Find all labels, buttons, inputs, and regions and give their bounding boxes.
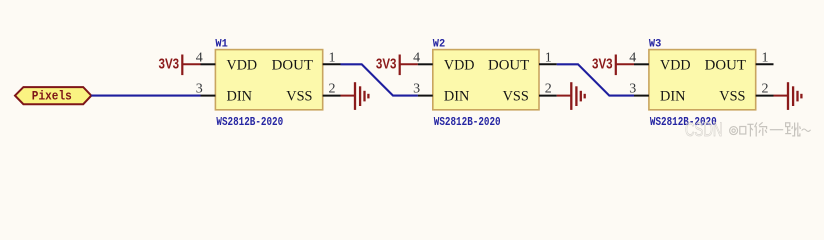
pin 1 DOUT of W2 <box>539 50 557 65</box>
wire DOUT W1 to DIN W2 <box>341 64 418 95</box>
watermark text 你 <box>755 122 767 136</box>
pin 1 DOUT of W3 <box>756 50 774 65</box>
pin 1 DOUT of W1 <box>323 50 341 65</box>
pin 4 VDD of W2 <box>413 50 433 65</box>
IC W3 body WS2812B-2020 <box>649 50 756 110</box>
svg-text:4: 4 <box>629 50 636 65</box>
pin 4 VDD of W3 <box>629 50 649 65</box>
svg-text:2: 2 <box>762 81 769 96</box>
power symbol 3V3 for W2 <box>376 55 418 76</box>
watermark user icon <box>730 127 738 135</box>
watermark text ~ <box>802 129 811 131</box>
svg-text:2: 2 <box>329 81 336 96</box>
svg-text:VSS: VSS <box>503 89 529 105</box>
svg-text:DOUT: DOUT <box>705 58 746 74</box>
pin 2 VSS of W3 <box>756 81 774 96</box>
watermark text 吓 <box>740 124 754 136</box>
pin 3 DIN of W3 <box>629 81 649 96</box>
svg-text:3: 3 <box>629 81 636 96</box>
svg-text:DIN: DIN <box>444 89 470 105</box>
svg-text:3V3: 3V3 <box>376 57 397 73</box>
svg-text:1: 1 <box>329 50 336 65</box>
svg-text:CSDN: CSDN <box>685 119 723 141</box>
power symbol 3V3 for W1 <box>159 55 201 76</box>
svg-text:3V3: 3V3 <box>592 57 613 73</box>
svg-text:2: 2 <box>545 81 552 96</box>
net label Pixels <box>15 87 91 104</box>
svg-text:3: 3 <box>196 81 203 96</box>
pin 4 VDD of W1 <box>196 50 216 65</box>
ground symbol at VSS of W3 <box>774 82 802 110</box>
svg-text:VSS: VSS <box>719 89 745 105</box>
svg-text:DOUT: DOUT <box>272 58 313 74</box>
svg-text:DIN: DIN <box>660 89 686 105</box>
IC W1 body WS2812B-2020 <box>215 50 322 110</box>
svg-text:VDD: VDD <box>444 58 475 74</box>
IC W2 body WS2812B-2020 <box>433 50 539 110</box>
svg-text:Pixels: Pixels <box>32 89 72 104</box>
svg-text:VSS: VSS <box>286 89 312 105</box>
svg-text:VDD: VDD <box>227 58 258 74</box>
ground symbol at VSS of W1 <box>341 82 369 110</box>
wire DOUT W2 to DIN W3 <box>557 64 634 95</box>
svg-text:1: 1 <box>545 50 552 65</box>
svg-text:1: 1 <box>762 50 769 65</box>
svg-text:WS2812B-2020: WS2812B-2020 <box>434 116 501 129</box>
svg-text:WS2812B-2020: WS2812B-2020 <box>216 116 283 129</box>
svg-text:VDD: VDD <box>660 58 691 74</box>
svg-text:4: 4 <box>413 50 420 65</box>
pin 2 VSS of W2 <box>539 81 557 96</box>
svg-text:DOUT: DOUT <box>488 58 529 74</box>
watermark text 一 <box>770 129 783 131</box>
svg-text:4: 4 <box>196 50 203 65</box>
svg-text:DIN: DIN <box>227 89 253 105</box>
svg-text:3V3: 3V3 <box>159 57 180 73</box>
power symbol 3V3 for W3 <box>592 55 634 76</box>
wire Pixels to DIN W1 <box>91 95 200 97</box>
svg-text:3: 3 <box>413 81 420 96</box>
pin 3 DIN of W2 <box>413 81 433 96</box>
watermark text 跳 <box>785 123 800 136</box>
pin 3 DIN of W1 <box>196 81 216 96</box>
ground symbol at VSS of W2 <box>557 82 585 110</box>
pin 2 VSS of W1 <box>323 81 341 96</box>
